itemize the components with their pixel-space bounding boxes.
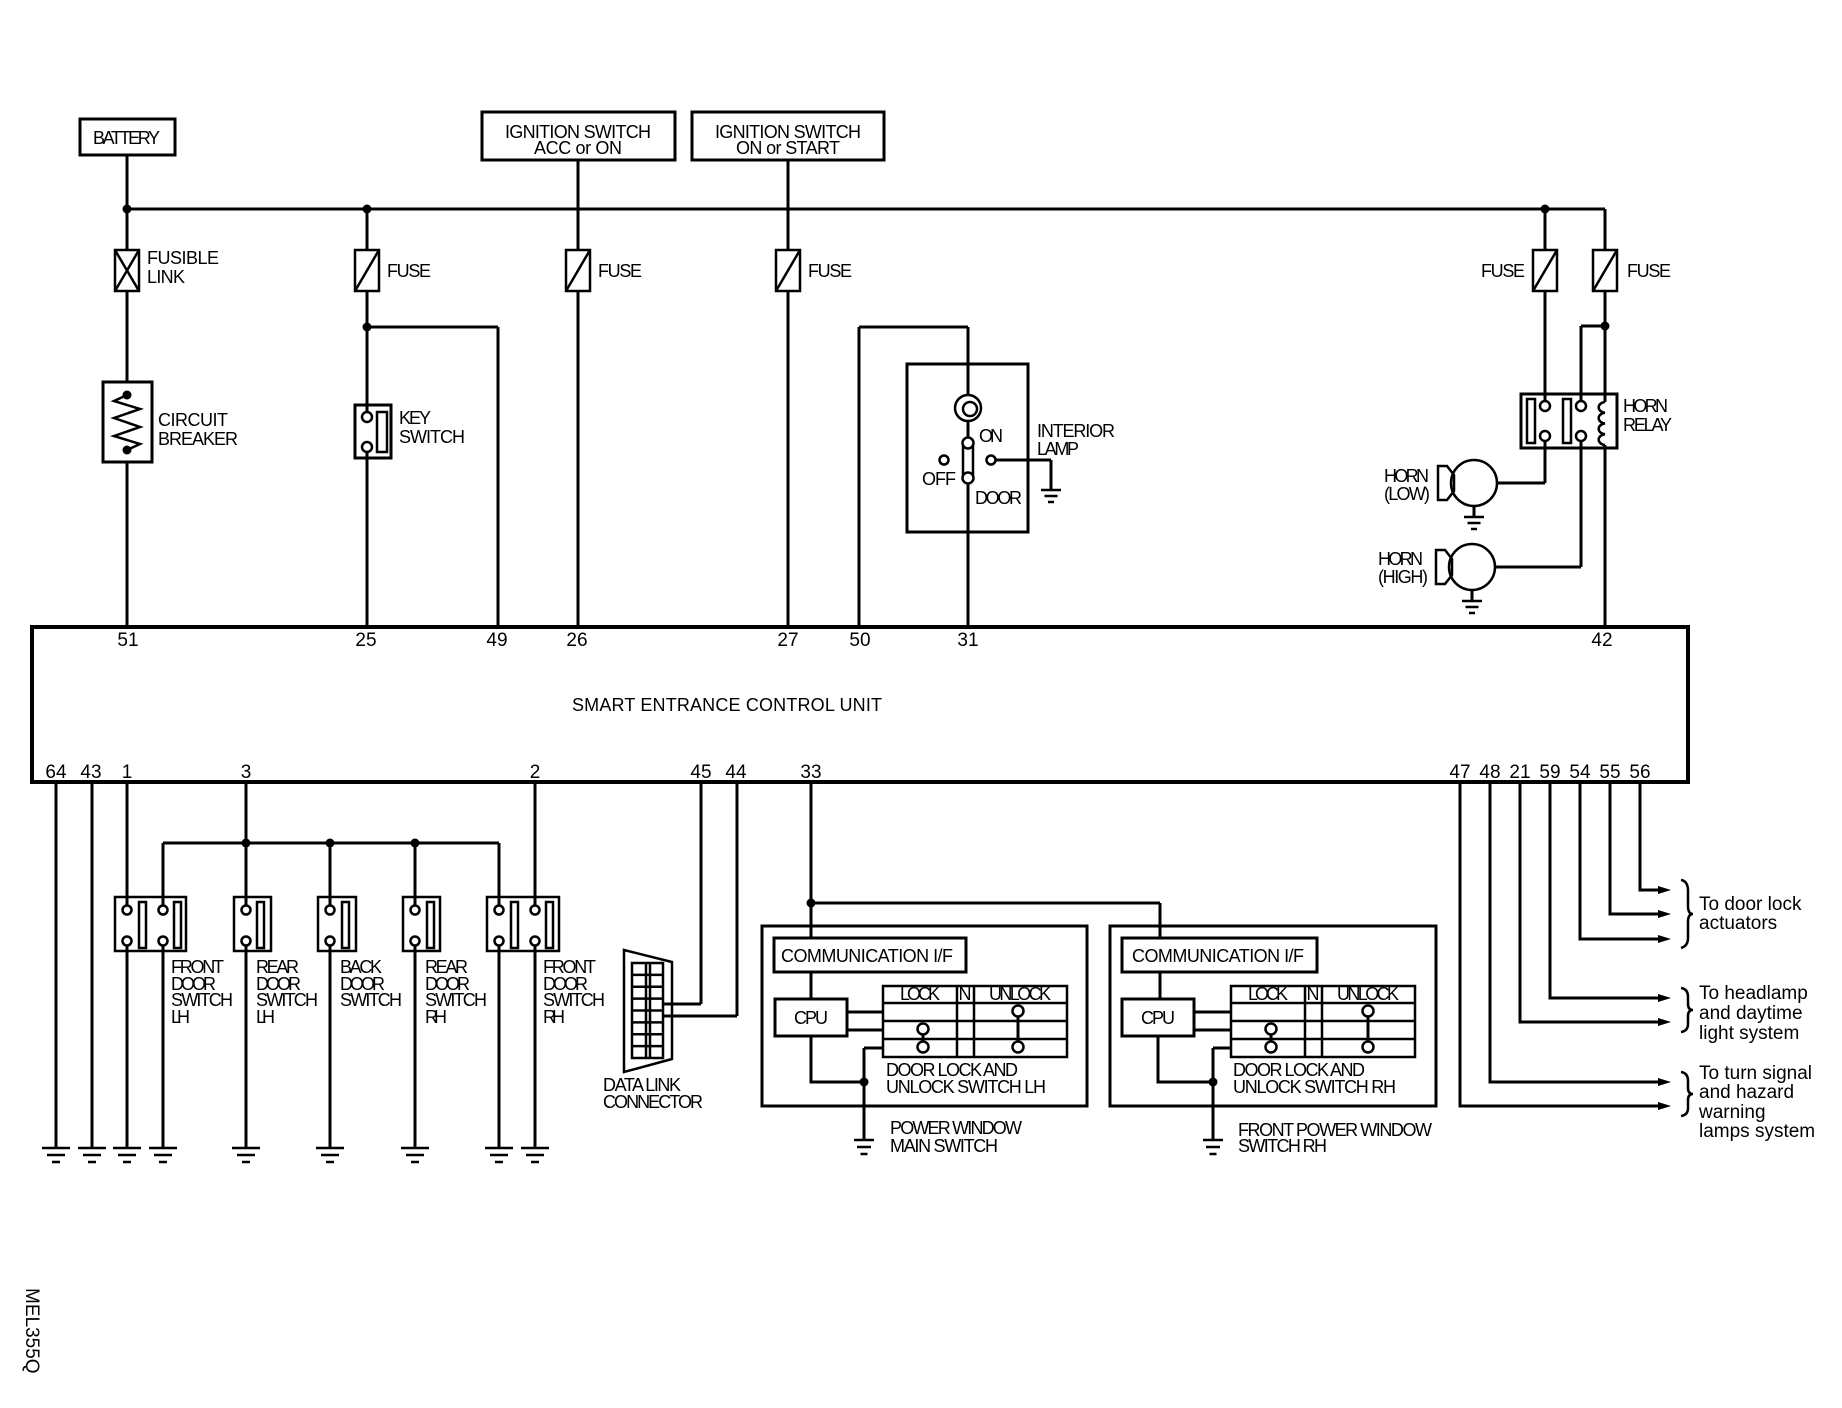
- svg-text:43: 43: [80, 762, 101, 783]
- svg-text:CPU: CPU: [1141, 1008, 1175, 1028]
- svg-text:actuators: actuators: [1699, 913, 1777, 934]
- svg-text:FUSE: FUSE: [1627, 261, 1671, 281]
- svg-text:44: 44: [725, 762, 747, 783]
- svg-text:N: N: [1307, 984, 1320, 1004]
- svg-text:LOCK: LOCK: [1248, 984, 1288, 1004]
- svg-text:BREAKER: BREAKER: [158, 429, 238, 449]
- svg-text:LOCK: LOCK: [900, 984, 940, 1004]
- svg-text:42: 42: [1591, 630, 1612, 651]
- svg-text:31: 31: [957, 630, 978, 651]
- svg-text:INTERIOR: INTERIOR: [1037, 421, 1115, 441]
- svg-text:3: 3: [241, 762, 252, 783]
- svg-text:27: 27: [777, 630, 798, 651]
- svg-text:N: N: [959, 984, 972, 1004]
- svg-text:COMMUNICATION I/F: COMMUNICATION I/F: [781, 946, 953, 966]
- svg-text:RH: RH: [543, 1007, 565, 1027]
- svg-text:RELAY: RELAY: [1623, 415, 1672, 435]
- svg-text:SWITCH: SWITCH: [399, 427, 465, 447]
- svg-text:LH: LH: [171, 1007, 190, 1027]
- svg-text:LINK: LINK: [147, 267, 185, 287]
- svg-text:and hazard: and hazard: [1699, 1082, 1794, 1103]
- svg-text:(LOW): (LOW): [1384, 484, 1430, 504]
- svg-text:48: 48: [1479, 762, 1500, 783]
- svg-text:HORN: HORN: [1623, 396, 1668, 416]
- svg-text:2: 2: [530, 762, 541, 783]
- svg-text:LAMP: LAMP: [1037, 439, 1079, 459]
- svg-text:ACC or ON: ACC or ON: [534, 138, 622, 158]
- svg-text:HORN: HORN: [1378, 549, 1423, 569]
- svg-text:and daytime: and daytime: [1699, 1003, 1803, 1024]
- svg-text:RH: RH: [425, 1007, 447, 1027]
- svg-text:warning: warning: [1698, 1102, 1766, 1123]
- svg-text:55: 55: [1599, 762, 1620, 783]
- svg-text:26: 26: [566, 630, 587, 651]
- svg-text:UNLOCK SWITCH RH: UNLOCK SWITCH RH: [1233, 1077, 1396, 1097]
- svg-text:UNLOCK SWITCH LH: UNLOCK SWITCH LH: [886, 1077, 1046, 1097]
- svg-text:DOOR: DOOR: [975, 488, 1022, 508]
- svg-text:FUSE: FUSE: [808, 261, 852, 281]
- svg-text:50: 50: [849, 630, 870, 651]
- svg-text:BATTERY: BATTERY: [93, 128, 160, 148]
- svg-text:21: 21: [1509, 762, 1530, 783]
- svg-text:HORN: HORN: [1384, 466, 1429, 486]
- svg-text:KEY: KEY: [399, 408, 431, 428]
- svg-text:CIRCUIT: CIRCUIT: [158, 410, 228, 430]
- svg-text:FUSIBLE: FUSIBLE: [147, 248, 219, 268]
- svg-text:59: 59: [1539, 762, 1560, 783]
- svg-text:45: 45: [690, 762, 711, 783]
- svg-text:FUSE: FUSE: [598, 261, 642, 281]
- svg-text:UNLOCK: UNLOCK: [1337, 984, 1399, 1004]
- svg-text:64: 64: [45, 762, 67, 783]
- svg-text:47: 47: [1449, 762, 1470, 783]
- svg-text:FUSE: FUSE: [1481, 261, 1525, 281]
- svg-text:To headlamp: To headlamp: [1699, 983, 1808, 1004]
- svg-text:54: 54: [1569, 762, 1591, 783]
- svg-text:49: 49: [486, 630, 507, 651]
- svg-text:SWITCH: SWITCH: [340, 990, 402, 1010]
- svg-text:(HIGH): (HIGH): [1378, 567, 1428, 587]
- svg-text:LH: LH: [256, 1007, 275, 1027]
- svg-text:MEL355Q: MEL355Q: [21, 1288, 42, 1374]
- svg-text:COMMUNICATION I/F: COMMUNICATION I/F: [1132, 946, 1304, 966]
- svg-text:51: 51: [117, 630, 138, 651]
- svg-text:To turn signal: To turn signal: [1699, 1063, 1812, 1084]
- svg-text:To door lock: To door lock: [1699, 894, 1802, 915]
- svg-text:POWER WINDOW: POWER WINDOW: [890, 1118, 1022, 1138]
- svg-text:CONNECTOR: CONNECTOR: [603, 1092, 703, 1112]
- svg-text:33: 33: [800, 762, 821, 783]
- svg-text:OFF: OFF: [922, 469, 956, 489]
- svg-text:light system: light system: [1699, 1023, 1799, 1044]
- svg-text:25: 25: [355, 630, 376, 651]
- svg-text:CPU: CPU: [794, 1008, 828, 1028]
- svg-text:MAIN SWITCH: MAIN SWITCH: [890, 1136, 998, 1156]
- svg-text:FUSE: FUSE: [387, 261, 431, 281]
- svg-text:lamps system: lamps system: [1699, 1121, 1815, 1142]
- svg-text:56: 56: [1629, 762, 1650, 783]
- svg-text:SWITCH RH: SWITCH RH: [1238, 1136, 1327, 1156]
- svg-text:SMART ENTRANCE CONTROL UNIT: SMART ENTRANCE CONTROL UNIT: [572, 695, 882, 715]
- svg-text:1: 1: [122, 762, 133, 783]
- svg-text:ON or START: ON or START: [736, 138, 840, 158]
- svg-text:ON: ON: [979, 426, 1003, 446]
- svg-text:UNLOCK: UNLOCK: [989, 984, 1051, 1004]
